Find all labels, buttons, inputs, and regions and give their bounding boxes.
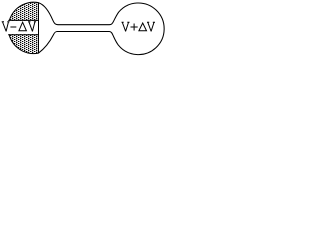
glyph V (first) (2, 22, 9, 31)
glyph Delta (19, 22, 27, 31)
white label band across left bulb (0, 21, 38, 34)
glyph Delta (139, 23, 147, 31)
glyph V (first) (122, 22, 129, 31)
band bottom border (8, 34, 38, 36)
dotted (shaded) region of left bulb (0, 0, 38, 57)
glyph V (second) (148, 22, 155, 31)
vertical chord of left bulb (38, 2, 40, 53)
glyph minus (11, 26, 16, 28)
glyph plus (131, 24, 137, 30)
label V-dV in left bulb (drawn glyphs) (2, 22, 35, 31)
glyph V (second) (29, 22, 36, 31)
vessel outline (two bulbs joined by a tube) (8, 2, 164, 54)
band top border (8, 19, 38, 21)
background (0, 0, 166, 57)
label V+dV in right bulb (drawn glyphs) (122, 22, 155, 31)
